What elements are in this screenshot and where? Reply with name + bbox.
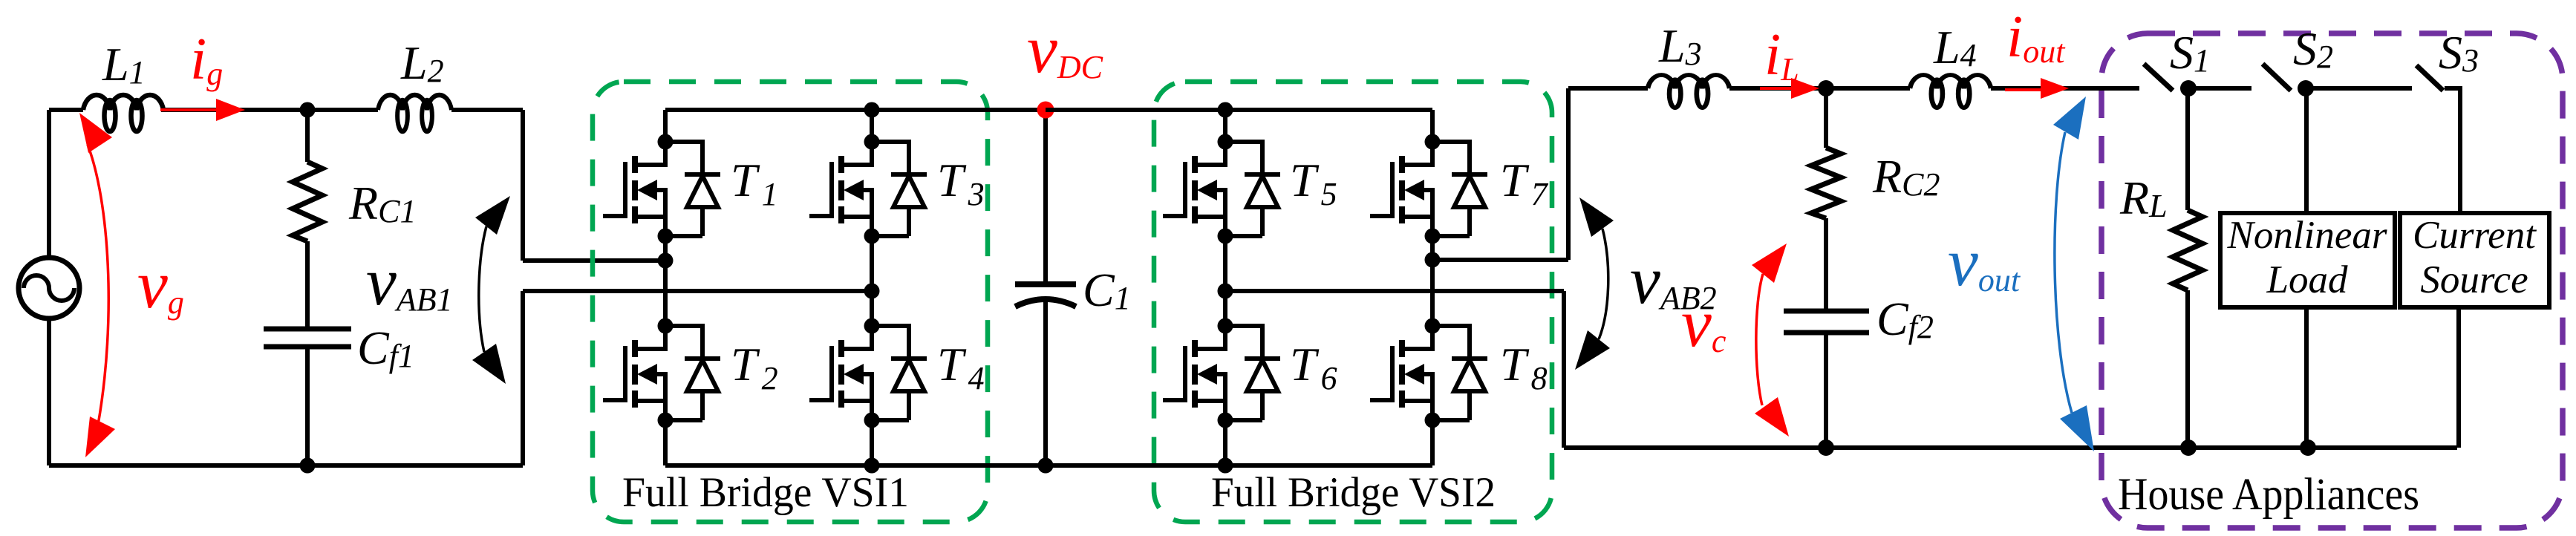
switch S3 blade bbox=[2416, 65, 2443, 91]
wire current source bottom bbox=[2456, 307, 2461, 448]
node rail bottom T6 bbox=[1218, 458, 1233, 474]
capacitor Cf2 bbox=[1784, 311, 1869, 333]
svg-text:Full Bridge VSI2: Full Bridge VSI2 bbox=[1211, 469, 1496, 516]
voltage arrow vAB2 bbox=[1575, 197, 1614, 370]
voltage arrow vc bbox=[1752, 244, 1789, 437]
wire left leg mid bbox=[1223, 236, 1227, 326]
node rail bottom T4 bbox=[864, 458, 880, 474]
voltage arrow vAB1 bbox=[472, 196, 510, 384]
node S2 bbox=[2298, 80, 2314, 97]
wire nonlinear load top bbox=[2304, 88, 2309, 213]
capacitor Cf2 lead bbox=[1824, 218, 1828, 311]
wire bottom rail VSI2 bbox=[1046, 463, 1432, 468]
wire L4 to S1 bbox=[1991, 86, 2139, 91]
capacitor C1 plates bbox=[1015, 281, 1076, 287]
node vDC bbox=[1037, 102, 1054, 119]
node RL bottom bbox=[2180, 439, 2197, 456]
resistor RC2 lead bbox=[1824, 88, 1828, 148]
wire top rail VSI2 bbox=[1046, 108, 1432, 112]
wire node to L2 bbox=[307, 108, 378, 112]
resistor RC2 bbox=[1811, 148, 1841, 218]
box Current Source bbox=[2400, 213, 2549, 307]
inductor L2 bbox=[378, 95, 451, 131]
switch S1 blade bbox=[2144, 64, 2173, 91]
wire node to L4 bbox=[1826, 86, 1910, 91]
wire top left to L1 bbox=[49, 108, 83, 112]
node ig junction bbox=[300, 102, 316, 118]
wire output down bbox=[1562, 291, 1566, 448]
wire source bottom bbox=[47, 318, 51, 465]
capacitor C1 lead bottom bbox=[1043, 301, 1048, 465]
resistor RC1 lead bbox=[305, 110, 310, 162]
capacitor C1 lead top bbox=[1043, 110, 1048, 284]
wire top rail VSI1 bbox=[665, 108, 1046, 112]
wire output up bbox=[1566, 88, 1571, 260]
voltage arrow vout bbox=[2053, 97, 2094, 451]
wire right leg mid bbox=[870, 236, 874, 326]
wire left leg bottom bbox=[1223, 420, 1227, 465]
transistor T5 bbox=[1163, 134, 1280, 244]
node C1 bottom bbox=[1038, 458, 1054, 474]
resistor RL lead bottom bbox=[2185, 290, 2190, 448]
wire stub vAB1 minus bbox=[523, 289, 872, 293]
resistor RL bbox=[2173, 210, 2202, 290]
dashed box VSI2 bbox=[1154, 82, 1552, 522]
node A mid left leg bbox=[658, 253, 674, 269]
box Nonlinear Load bbox=[2220, 213, 2395, 307]
voltage arrow vg bbox=[79, 113, 115, 457]
wire bottom output bbox=[1564, 445, 2457, 450]
transistor T8 bbox=[1370, 318, 1487, 428]
current arrow iL bbox=[1760, 78, 1819, 99]
dashed box House Appliances bbox=[2101, 33, 2563, 528]
node nonlinear bottom bbox=[2300, 439, 2316, 456]
capacitor Cf1 lead bottom bbox=[305, 347, 310, 465]
current arrow iout bbox=[2005, 78, 2069, 99]
capacitor Cf2 lead bottom bbox=[1824, 333, 1828, 448]
inductor L3 bbox=[1648, 75, 1729, 108]
wire S3 to corner bbox=[2445, 88, 2460, 213]
wire left leg mid bbox=[663, 236, 668, 326]
svg-text:House Appliances: House Appliances bbox=[2118, 470, 2419, 520]
node mid left leg VSI2 bbox=[1218, 284, 1233, 299]
svg-text:Current: Current bbox=[2413, 214, 2537, 257]
node rail T3 bbox=[864, 102, 880, 118]
wire bottom rail VSI1 bbox=[665, 463, 1046, 468]
node S1 bbox=[2180, 80, 2197, 97]
transistor T4 bbox=[809, 318, 927, 428]
resistor RL lead bbox=[2185, 88, 2190, 210]
ac source vg circle bbox=[19, 258, 79, 318]
node B mid right leg bbox=[864, 284, 880, 299]
wire right leg bottom bbox=[870, 420, 874, 465]
wire S1 to S2 bbox=[2188, 86, 2251, 91]
transistor T7 bbox=[1370, 134, 1487, 244]
wire L1 to node bbox=[161, 108, 307, 112]
wire stub vAB1 plus bbox=[523, 258, 665, 263]
switch S2 blade bbox=[2263, 64, 2291, 91]
capacitor Cf1 lead bbox=[305, 241, 310, 329]
node Cf2 bottom bbox=[1818, 439, 1834, 456]
wire right leg mid bbox=[1430, 236, 1435, 326]
wire left leg bottom bbox=[663, 420, 668, 465]
wire left leg top bbox=[1223, 110, 1227, 142]
node rail T5 bbox=[1218, 102, 1233, 118]
wire right leg top bbox=[1430, 110, 1435, 142]
inductor L1 bbox=[83, 95, 163, 131]
node iL junction bbox=[1818, 80, 1834, 97]
wire right side down to terminal A bbox=[521, 110, 525, 261]
wire right leg top bbox=[870, 110, 874, 142]
wire right side up to terminal B bbox=[521, 291, 525, 465]
node bottom junction bbox=[300, 458, 316, 474]
transistor T3 bbox=[809, 134, 927, 244]
wire L3 to node bbox=[1729, 86, 1826, 91]
wire left leg top bbox=[663, 110, 668, 142]
dashed box VSI1 bbox=[593, 82, 988, 522]
wire right leg bottom bbox=[1430, 420, 1435, 465]
transistor T2 bbox=[603, 318, 720, 428]
wire nonlinear load bottom bbox=[2304, 307, 2309, 448]
wire stub vAB2 plus bbox=[1432, 258, 1568, 262]
transistor T1 bbox=[603, 134, 720, 244]
svg-text:Nonlinear: Nonlinear bbox=[2227, 214, 2387, 257]
wire S2 to S3 bbox=[2306, 86, 2412, 91]
svg-text:Source: Source bbox=[2420, 258, 2528, 301]
wire bottom rail left bbox=[49, 463, 523, 468]
wire top to L3 bbox=[1568, 86, 1648, 91]
wire stub vAB2 minus bbox=[1225, 289, 1564, 293]
svg-text:Full Bridge VSI1: Full Bridge VSI1 bbox=[622, 469, 909, 516]
node mid right leg VSI2 bbox=[1425, 252, 1441, 268]
wire source top bbox=[47, 110, 51, 258]
capacitor Cf1 bbox=[264, 329, 351, 347]
wire L2 to corner bbox=[451, 108, 523, 112]
inductor L4 bbox=[1910, 75, 1991, 108]
svg-text:Load: Load bbox=[2266, 258, 2348, 301]
transistor T6 bbox=[1163, 318, 1280, 428]
current arrow ig bbox=[160, 99, 245, 121]
resistor RC1 bbox=[293, 162, 322, 241]
